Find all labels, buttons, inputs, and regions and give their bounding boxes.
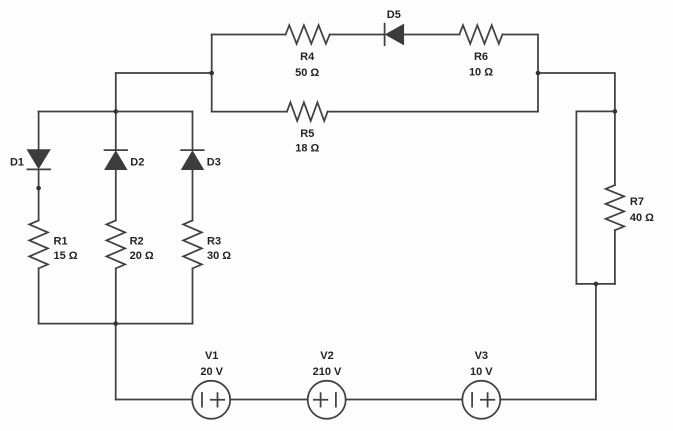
wire: R5 row left segment: [212, 111, 287, 113]
wire: top-left vertical of top loop (node from R4 row down to R5 row): [211, 35, 213, 112]
diode D2 (triangle, pointing up): [106, 152, 126, 169]
node: junction middle branch on left group top rail: [114, 109, 119, 114]
wire: R7 parallel branch left side: [575, 111, 577, 284]
resistor R6: [459, 25, 502, 44]
wire: middle branch upper lead (from y=73 corner down to D2): [115, 73, 117, 150]
svg-text:10 Ω: 10 Ω: [469, 67, 493, 79]
wire: D3 branch upper lead: [192, 112, 194, 151]
wire: R1 lower lead: [38, 268, 40, 323]
wire: R3 lower lead: [192, 268, 194, 323]
wire: D2 to R2 lead: [115, 169, 117, 220]
wire: horizontal link from left group to top loop at y=73: [116, 72, 212, 74]
svg-text:18 Ω: 18 Ω: [295, 142, 319, 154]
diode D3 (cathode bar): [181, 149, 204, 151]
wire: R2 lower lead: [115, 268, 117, 323]
wire: top rail right segment and right vertical of top loop: [502, 35, 538, 112]
voltage source V2 (circle): [308, 381, 346, 419]
resistor R4: [286, 25, 330, 44]
wire: left group down to bottom rail: [115, 324, 117, 400]
diode D1 (cathode bar): [27, 168, 50, 170]
wire: top rail segment between D5 and R6: [403, 34, 459, 36]
node: junction at top loop right / R7 link: [536, 71, 541, 76]
voltage source V1 (circle): [192, 381, 230, 419]
svg-text:R1: R1: [54, 235, 68, 247]
resistor R5: [287, 102, 328, 121]
svg-text:D2: D2: [130, 156, 144, 168]
voltage source V3 minus bar: [471, 393, 473, 407]
wire: from top loop right node to R7 branch: [538, 73, 615, 111]
diode D5 (cathode bar): [384, 24, 386, 46]
wire: R7 branch down to bottom rail: [595, 284, 597, 400]
resistor R3: [183, 220, 202, 268]
node: junction below D1: [36, 186, 41, 191]
diode D5 (triangle, pointing left): [387, 25, 404, 44]
svg-text:D3: D3: [207, 156, 221, 168]
voltage source V3 plus sign: [481, 393, 494, 407]
voltage source V1 minus bar: [201, 393, 203, 407]
svg-text:R6: R6: [474, 51, 488, 63]
node: junction R7 branch top: [613, 109, 618, 114]
svg-text:V2: V2: [320, 350, 333, 362]
svg-text:10 V: 10 V: [470, 366, 493, 378]
svg-text:V3: V3: [475, 350, 488, 362]
svg-text:D5: D5: [387, 9, 401, 21]
wire: bottom rail segment between V2 and V3: [346, 399, 463, 401]
voltage source V2 minus bar: [335, 393, 337, 407]
wire: D1 branch upper lead: [38, 112, 40, 151]
diode D2 (cathode bar): [105, 149, 128, 151]
resistor R2: [107, 220, 126, 268]
svg-text:210 V: 210 V: [313, 366, 342, 378]
svg-text:R4: R4: [300, 51, 315, 63]
wire: D1 to R1 lead: [38, 169, 40, 220]
wire: bottom rail segment between V1 and V2: [230, 399, 308, 401]
svg-text:R7: R7: [630, 196, 644, 208]
svg-text:40 Ω: 40 Ω: [630, 212, 654, 224]
svg-text:15 Ω: 15 Ω: [54, 250, 78, 262]
diode D1 (triangle, pointing down): [28, 150, 49, 168]
voltage source V3 (circle): [462, 381, 500, 419]
wire: bottom rail segment left of V1: [116, 399, 193, 401]
node: junction on left group bottom rail: [113, 321, 118, 326]
wire: R5 row right segment: [328, 111, 538, 113]
svg-text:R5: R5: [300, 128, 314, 140]
wire: R7 upper lead: [614, 111, 616, 185]
svg-text:R2: R2: [130, 235, 144, 247]
svg-text:30 Ω: 30 Ω: [207, 250, 231, 262]
svg-text:20 V: 20 V: [200, 366, 223, 378]
wire: R7 parallel branch bottom rail: [576, 283, 615, 285]
wire: D3 to R3 lead: [192, 169, 194, 220]
svg-text:50 Ω: 50 Ω: [295, 67, 319, 79]
svg-text:D1: D1: [10, 156, 24, 168]
wire: R7 parallel branch top rail: [576, 110, 615, 112]
diode D3 (triangle, pointing up): [182, 152, 202, 169]
voltage source V1 plus sign: [211, 393, 224, 407]
svg-text:V1: V1: [205, 350, 218, 362]
svg-text:R3: R3: [207, 235, 221, 247]
wire: bottom rail right segment up to R7 branch: [500, 399, 596, 401]
wire: top rail segment between R4 and D5: [330, 34, 385, 36]
node: junction at left link / top loop: [209, 71, 214, 76]
node: junction R7 branch bottom: [594, 282, 599, 287]
wire: R7 lower lead: [614, 230, 616, 284]
wire: left group top rail: [39, 111, 193, 113]
wire: top rail segment left of R4: [212, 34, 286, 36]
svg-text:20 Ω: 20 Ω: [130, 250, 154, 262]
resistor R7: [606, 185, 625, 230]
voltage source V2 plus sign: [314, 393, 327, 407]
wire: left group bottom rail: [39, 323, 193, 325]
resistor R1: [29, 220, 48, 268]
